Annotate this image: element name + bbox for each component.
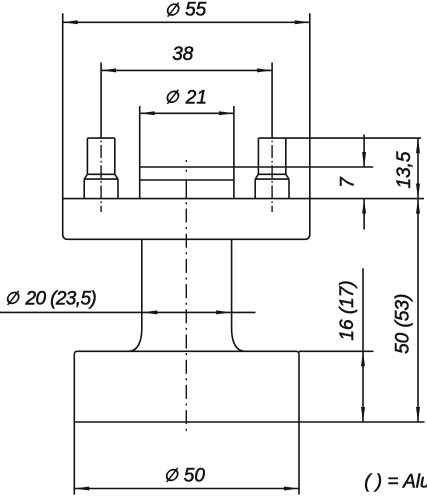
centerline stud S1 bbox=[100, 138, 102, 212]
38 extension line right (stud S2 centre) bbox=[271, 63, 273, 139]
label ⌀20 diameter symbol bbox=[6, 291, 20, 305]
arrow 16 (17) bottom bbox=[361, 407, 365, 422]
arrow ⌀21 right bbox=[219, 111, 234, 115]
base top edge extension (for dim 16) bbox=[299, 350, 374, 352]
arrow ⌀20 right bbox=[216, 310, 231, 314]
arrow 50 (53) bottom bbox=[416, 407, 420, 422]
dimension line 7 (upper segment) bbox=[363, 135, 365, 168]
arrow ⌀21 left bbox=[140, 111, 155, 115]
centerline stud S2 bbox=[271, 138, 273, 212]
arrow ⌀55 right bbox=[295, 20, 310, 24]
arrow ⌀20 left bbox=[142, 310, 157, 314]
38 extension line left (stud S1 centre) bbox=[100, 63, 102, 139]
label ⌀50 diameter symbol bbox=[165, 468, 179, 482]
arrow 13,5 bottom bbox=[416, 184, 420, 199]
stem right edge with fillet bbox=[232, 239, 245, 351]
stud S1 (left) bbox=[84, 138, 118, 199]
dimension line ⌀50 bbox=[74, 488, 299, 490]
arrow 50 (53) top bbox=[416, 199, 420, 214]
svg-text:21: 21 bbox=[185, 87, 207, 108]
arrow 13,5 top bbox=[416, 138, 420, 153]
dimension line 38 bbox=[101, 69, 272, 71]
svg-text:55: 55 bbox=[185, 0, 207, 20]
flange plate outline (⌀55 body, sides double as extension lines) bbox=[63, 13, 310, 239]
svg-text:7: 7 bbox=[338, 176, 359, 188]
arrow 7 upper (points down) bbox=[362, 152, 366, 167]
svg-text:50: 50 bbox=[184, 466, 206, 487]
label ⌀55 diameter symbol bbox=[166, 3, 180, 17]
svg-text:38: 38 bbox=[172, 44, 194, 65]
arrow ⌀50 left bbox=[74, 487, 89, 491]
stem left edge with fillet bbox=[129, 239, 142, 351]
dimension line ⌀55 bbox=[63, 21, 310, 23]
arrow ⌀50 right bbox=[284, 487, 299, 491]
arrow 38 left bbox=[101, 68, 116, 72]
base left edge / ⌀50 extension line bbox=[73, 354, 75, 494]
arrow 16 (17) top bbox=[361, 351, 365, 366]
boss middle edge (y=180) bbox=[140, 179, 234, 181]
svg-text:16 (17): 16 (17) bbox=[337, 280, 358, 340]
dimension line 7 (lower segment) bbox=[363, 199, 365, 230]
svg-text:20 (23,5): 20 (23,5) bbox=[25, 288, 97, 309]
boss right edge / ⌀21 extension line bbox=[233, 106, 235, 199]
arrow 38 right bbox=[257, 68, 272, 72]
label ⌀21 diameter symbol bbox=[166, 90, 180, 104]
svg-text:50 (53): 50 (53) bbox=[393, 294, 414, 354]
arrow 7 lower (points up) bbox=[362, 199, 366, 214]
base bottom edge (extends right as extension line) bbox=[74, 421, 424, 423]
plate top seam line (y=198.6, also extension line to right dims) bbox=[63, 198, 424, 200]
base right edge / ⌀50 extension line bbox=[298, 354, 300, 494]
centerline main axis bbox=[185, 160, 187, 432]
dimension line ⌀21 bbox=[140, 112, 234, 114]
svg-text:( ) = Alu: ( ) = Alu bbox=[364, 471, 427, 492]
boss left edge / ⌀21 extension line bbox=[139, 106, 141, 199]
base cylinder top edge (⌀50) bbox=[74, 351, 299, 354]
dimension line 13,5 and 50 (53) bbox=[417, 138, 419, 422]
dimension line 16 (17) bbox=[362, 268, 364, 422]
dimension line ⌀20 (23,5) bbox=[0, 311, 256, 313]
boss top edge (y=167, extension for dim 7) bbox=[140, 166, 374, 168]
stud S2 (right), top edge continues as extension line to right dims bbox=[255, 138, 421, 199]
svg-text:13,5: 13,5 bbox=[394, 151, 415, 188]
arrow ⌀55 left bbox=[63, 20, 78, 24]
